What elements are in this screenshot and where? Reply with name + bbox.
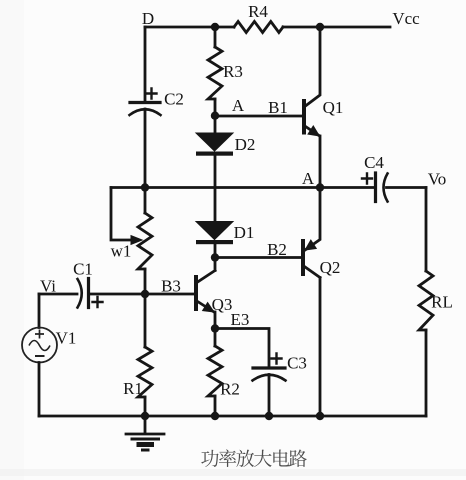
node R2/rail junction: [211, 412, 219, 420]
node C3/rail junction: [265, 412, 273, 420]
svg-text:C4: C4: [364, 153, 384, 172]
capacitor C2: [130, 101, 160, 104]
resistor R4: [234, 22, 283, 33]
svg-text:Vcc: Vcc: [392, 9, 420, 28]
source V1: [22, 328, 57, 363]
svg-text:V1: V1: [56, 329, 77, 348]
node E3: [211, 324, 219, 332]
wire C2 to w1: [144, 109, 147, 213]
node Vcc rail junction: [316, 23, 324, 31]
wiper arm wire: [111, 188, 132, 241]
wire C1 to Q3 base: [89, 293, 197, 296]
wire E3 to C3: [215, 329, 269, 369]
svg-text:D1: D1: [234, 223, 255, 242]
transistor Q1 base bar: [302, 101, 306, 133]
wire Q1 emitter to node A2: [319, 136, 322, 188]
wire to Vcc: [320, 26, 390, 29]
node A2 (output node): [316, 183, 324, 191]
wire C4 to Vo corner: [387, 186, 427, 189]
svg-text:R4: R4: [248, 2, 268, 21]
resistor R2: [214, 329, 217, 347]
wire top rail D to R4: [145, 26, 234, 29]
wire A to D2: [214, 116, 217, 133]
capacitor C3: [253, 366, 285, 369]
Q1 collector: [304, 27, 320, 107]
mid rail wire (wiper rail to node A2): [111, 186, 320, 189]
title text 功率放大电路: [201, 449, 307, 467]
transistor Q2 base bar: [301, 241, 305, 274]
svg-text:A: A: [232, 96, 245, 115]
svg-text:R1: R1: [123, 379, 143, 398]
transistor Q3 base bar: [194, 277, 198, 309]
wire V1 to ground rail: [38, 363, 41, 417]
node B3: [141, 290, 149, 298]
node R1/ground junction: [141, 412, 149, 420]
diode D1: [196, 222, 233, 240]
ground symbol: [144, 416, 147, 433]
wire Q3 emitter to E3: [214, 312, 217, 329]
svg-text:B1: B1: [268, 98, 288, 117]
svg-text:R2: R2: [220, 380, 240, 399]
svg-text:D: D: [142, 9, 154, 28]
svg-text:C3: C3: [287, 354, 307, 373]
wiper arrow: [131, 235, 144, 245]
Q2 emitter wire: [305, 188, 320, 251]
Q2 collector: [303, 266, 320, 417]
Q1 emitter: [304, 126, 319, 136]
svg-text:A: A: [302, 169, 315, 188]
svg-text:D2: D2: [235, 135, 256, 154]
svg-text:w1: w1: [111, 242, 132, 261]
svg-text:E3: E3: [231, 310, 250, 329]
svg-text:C1: C1: [73, 260, 93, 279]
capacitor C4: [320, 186, 376, 189]
svg-text:Vo: Vo: [428, 170, 447, 189]
node D-R3 junction: [211, 23, 219, 31]
wire D1 to B2 node: [214, 244, 217, 258]
wire D2 to D1: [214, 155, 217, 222]
wire C3 to ground rail: [268, 375, 271, 417]
node A (R3/D2/B1): [211, 112, 219, 120]
node D1/B2/Q3 junction: [211, 253, 219, 261]
capacitor C1: [78, 279, 82, 308]
wire A to Q1 base: [215, 115, 304, 118]
wire R4 to Vcc node: [283, 26, 320, 29]
svg-text:B2: B2: [267, 240, 287, 259]
svg-text:R3: R3: [223, 62, 243, 81]
resistor RL: [425, 188, 428, 272]
potentiometer w1: [138, 213, 152, 269]
diode D2: [196, 133, 233, 151]
wire C2 column top: [144, 27, 147, 101]
node C2 column / rail: [141, 183, 149, 191]
resistor R1: [144, 294, 147, 347]
wire Vi corner to V1: [38, 294, 41, 328]
svg-text:Q2: Q2: [320, 258, 341, 277]
wire Vi input: [39, 293, 77, 296]
svg-text:Q1: Q1: [323, 98, 344, 117]
wire B2 to Q2 base: [215, 256, 303, 259]
svg-text:C2: C2: [164, 90, 184, 109]
svg-text:RL: RL: [431, 293, 453, 312]
Q3 emitter: [196, 301, 214, 313]
node Q2 collector/rail junction: [316, 412, 324, 420]
ground rail wire: [39, 415, 426, 418]
resistor R3: [214, 27, 217, 47]
svg-text:B3: B3: [161, 277, 181, 296]
Q3 collector: [196, 258, 215, 284]
